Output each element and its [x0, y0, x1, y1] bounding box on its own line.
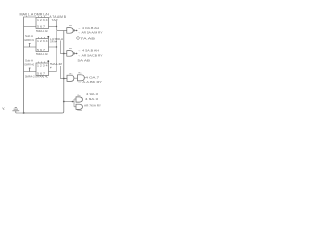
relay K1 top pins [39, 16, 45, 18]
svg-text:4 9A.3: 4 9A.3 [85, 97, 98, 101]
wire box3 right to bus [49, 71, 57, 73]
wire gate3b output [84, 77, 86, 79]
svg-text:5 6 7: 5 6 7 [37, 26, 46, 29]
wire box1 right to bus [49, 26, 57, 28]
svg-text:5MFA-2 (AFAA) 4L: 5MFA-2 (AFAA) 4L [25, 74, 49, 78]
svg-text:5MFA-1 AF: 5MFA-1 AF [36, 52, 48, 56]
svg-text:→ A.A.BK RY: → A.A.BK RY [78, 80, 103, 84]
relay K1 (box) [36, 18, 49, 29]
svg-text:AR 7K/A RY: AR 7K/A RY [84, 104, 101, 108]
svg-text:1 2 3 4: 1 2 3 4 [37, 40, 48, 43]
svg-text:5MFA-1 AF: 5MFA-1 AF [36, 29, 48, 33]
svg-text:Y.: Y. [2, 106, 5, 111]
svg-text:→ AR 5A A/M RY: → AR 5A A/M RY [78, 30, 103, 34]
svg-text:OR A#: OR A# [50, 40, 58, 44]
label U1 row3 [77, 37, 95, 41]
relay K3 right pin stub [47, 61, 49, 63]
wire box1 left pin [24, 26, 37, 28]
svg-text:→ 4 OA.B AH: → 4 OA.B AH [78, 26, 100, 30]
svg-text:EMFR #2: EMFR #2 [25, 62, 35, 66]
key symbol on K2 wire [29, 44, 31, 48]
svg-text:5 6 7: 5 6 7 [37, 49, 46, 52]
svg-text:4 9A.3: 4 9A.3 [86, 92, 98, 96]
svg-text:5ALR: 5ALR [50, 62, 63, 66]
wire left bus [24, 17, 26, 113]
svg-text:EMFR #1: EMFR #1 [25, 38, 35, 42]
svg-text:4 OA.7: 4 OA.7 [86, 76, 100, 80]
wire label drop 2 [61, 66, 67, 79]
ground [12, 107, 19, 113]
svg-text:7B.A: 7B.A [77, 109, 82, 112]
junction dots [23, 26, 78, 114]
wire label drop 1 [61, 41, 67, 54]
wire box3 left pin [24, 71, 37, 73]
wire gate4 branch [64, 101, 74, 103]
wire box1 top [24, 16, 37, 18]
wire mid bus lower [56, 31, 58, 72]
svg-text:→ AR 5A/CB RY: → AR 5A/CB RY [78, 53, 103, 57]
wire gate1 output [74, 30, 78, 32]
gate U4b [76, 104, 82, 109]
svg-text:7A#: 7A# [52, 18, 59, 22]
key symbol on K3 wire [29, 68, 31, 72]
wire gate4 vertical [73, 99, 75, 107]
wire right bus main [62, 31, 64, 114]
relay K2 right pin stub [47, 37, 49, 39]
gate U3b [78, 73, 85, 81]
wire mid bus x56.5 [57, 21, 67, 31]
gate U2 [67, 48, 75, 56]
svg-text:1 2 3 4: 1 2 3 4 [37, 19, 48, 22]
svg-text:→ 4 5A.B AH: → 4 5A.B AH [78, 49, 100, 53]
junction tick on box1 top wire [26, 16, 28, 17]
wire gate2 output [74, 53, 78, 55]
wire gate4b input [74, 106, 76, 108]
wire box2 left pin [24, 46, 37, 48]
svg-text:5A AB: 5A AB [78, 58, 91, 62]
wire gate3a to 3b [74, 77, 78, 79]
svg-text:1 2 3 4: 1 2 3 4 [37, 64, 48, 67]
svg-text:7A AB: 7A AB [80, 37, 95, 41]
gate U4a [76, 95, 82, 102]
wire box2 right to bus [49, 46, 57, 48]
gate U3a [67, 73, 74, 81]
svg-text:.A 7A A/M B: .A 7A A/M B [49, 15, 67, 19]
wire gate4a input [74, 98, 76, 100]
gate U1 [67, 25, 75, 33]
wire bottom horizontal [24, 112, 63, 114]
relay K3 top pins [39, 62, 45, 64]
relay K2 top pins [39, 37, 45, 39]
relay K2 (box) [36, 39, 49, 52]
svg-text:MA# L.A DMR L/H: MA# L.A DMR L/H [20, 13, 50, 17]
relay K3 (box) [36, 63, 49, 76]
wire gate3 input [64, 78, 67, 80]
wire bottom to ground [16, 112, 24, 114]
